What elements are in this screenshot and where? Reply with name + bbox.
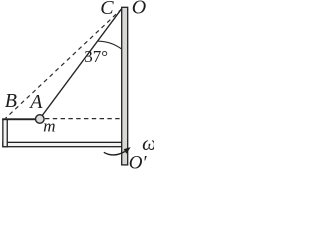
left vertical post of frame	[3, 119, 7, 147]
svg-text:O: O	[132, 0, 146, 19]
angle arc at C	[98, 41, 122, 49]
top bar B to A	[2, 118, 35, 120]
dashed line C to B	[6, 9, 122, 119]
bottom horizontal bar of frame	[3, 142, 122, 146]
ball m at A	[36, 115, 45, 124]
dashed horizontal line A to rod	[45, 118, 122, 120]
string C to A	[42, 9, 122, 117]
vertical rod O O'	[122, 7, 128, 165]
svg-text:B: B	[5, 90, 17, 112]
svg-text:m: m	[43, 116, 55, 135]
svg-text:O′: O′	[129, 152, 148, 172]
svg-text:A: A	[28, 91, 43, 113]
rotation arrow around rod	[104, 152, 125, 155]
svg-text:ω: ω	[142, 133, 154, 155]
svg-text:C: C	[100, 0, 114, 19]
svg-text:37°: 37°	[84, 47, 108, 66]
